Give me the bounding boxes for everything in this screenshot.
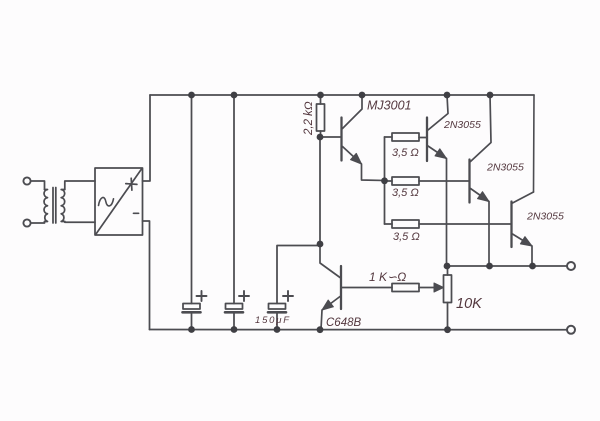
- svg-text:2,2 kΩ: 2,2 kΩ: [303, 101, 315, 136]
- node ground pot bottom: [444, 326, 451, 333]
- capacitor C2 top wire: [233, 95, 235, 304]
- node output rail Q3 emitter: [529, 263, 536, 270]
- svg-text:2N3055: 2N3055: [526, 211, 564, 223]
- resistor R3 3.5ohm body: [392, 177, 419, 185]
- bridge rectifier minus mark: [134, 212, 139, 214]
- transformer T1 primary winding: [44, 190, 47, 222]
- wire R2 to Q1 base: [419, 137, 427, 139]
- capacitor C1 top plate: [183, 304, 200, 310]
- transistor Q1 2N3055 base bar: [426, 118, 428, 162]
- node C648B collector junction: [317, 241, 324, 248]
- svg-text:C648B: C648B: [326, 317, 361, 329]
- node top rail cap2: [231, 92, 238, 99]
- svg-text:150μF: 150μF: [255, 315, 291, 326]
- wire bridge + output to top rail: [143, 95, 151, 181]
- wire bridge - output to bottom rail: [143, 221, 150, 330]
- node ground Q4 emitter: [317, 326, 324, 333]
- svg-text:2N3055: 2N3055: [486, 162, 524, 174]
- potentiometer wiper arrow: [434, 283, 444, 292]
- node output rail Q2 emitter: [486, 263, 493, 270]
- transistor Q2 collector: [471, 95, 492, 162]
- transistor Q2 emitter: [471, 189, 490, 267]
- capacitor C2 plus sign: [239, 291, 249, 301]
- bridge rectifier sine mark: [99, 198, 114, 206]
- wire ladder to R2: [385, 136, 393, 138]
- transformer input terminal bottom: [23, 219, 30, 226]
- capacitor C1 bottom wire: [191, 314, 193, 330]
- svg-text:3,5 Ω: 3,5 Ω: [392, 187, 419, 199]
- capacitor C2 top plate: [226, 304, 243, 310]
- wire resistor ladder vertical: [384, 137, 386, 224]
- node top rail Q2 collector: [487, 92, 494, 99]
- wire ladder to R4: [385, 223, 393, 225]
- node R1 bottom / U1 base: [317, 134, 324, 141]
- svg-text:2N3055: 2N3055: [443, 119, 481, 131]
- transistor U1 MJ3001 base wire: [320, 136, 342, 138]
- transistor Q3 collector: [513, 192, 534, 203]
- capacitor C1 bottom plate: [183, 311, 201, 314]
- node output rail pot top: [444, 263, 451, 270]
- wire R1 to base node: [320, 131, 322, 137]
- capacitor C2 bottom wire: [233, 314, 235, 330]
- transistor Q4 C648B base bar: [340, 266, 342, 309]
- transistor Q3 2N3055 base bar: [510, 202, 512, 248]
- transistor Q2 2N3055 base bar: [468, 160, 470, 203]
- transistor U1 MJ3001 emitter arrow: [351, 153, 362, 164]
- transistor U1 MJ3001 base bar: [340, 118, 342, 161]
- resistor R2 3.5ohm body: [392, 133, 419, 141]
- wire secondary bottom to bridge: [65, 221, 95, 224]
- transistor U1 MJ3001 collector: [343, 95, 363, 129]
- output terminal bottom: [567, 326, 575, 334]
- bridge rectifier box: [95, 168, 143, 235]
- resistor R1 2.2k body: [317, 104, 325, 131]
- capacitor C3 bottom wire: [276, 314, 278, 330]
- capacitor C3 plus sign: [283, 291, 293, 301]
- node ground cap2: [231, 326, 238, 333]
- node top rail cap1: [188, 92, 195, 99]
- svg-text:3,5 Ω: 3,5 Ω: [392, 147, 419, 159]
- potentiometer R6 10K body: [444, 275, 452, 303]
- capacitor C3 150uF top wire: [277, 244, 320, 304]
- wire: [31, 222, 45, 224]
- capacitor C1 top wire: [191, 95, 193, 304]
- node U1 emitter / ladder: [381, 177, 388, 184]
- transformer T1 secondary winding: [61, 190, 65, 222]
- wire pot bottom to ground rail: [447, 303, 449, 330]
- svg-text:3,5 Ω: 3,5 Ω: [393, 231, 420, 243]
- bridge rectifier plus mark: [126, 178, 137, 190]
- capacitor C3 bottom plate: [268, 311, 286, 314]
- wire positive output rail: [447, 265, 568, 267]
- wire: [31, 181, 45, 190]
- transformer input terminal top: [23, 177, 30, 184]
- transistor Q4 emitter arrow: [322, 300, 333, 310]
- capacitor C3 top plate: [269, 304, 286, 310]
- transistor Q3 emitter arrow: [520, 237, 532, 246]
- transistor Q1 emitter: [428, 146, 447, 266]
- node ground cap3: [274, 326, 281, 333]
- wire R4 to Q3 base: [419, 223, 512, 225]
- svg-text:1 K∽Ω: 1 K∽Ω: [369, 270, 406, 284]
- node top rail U1 collector: [359, 92, 366, 99]
- resistor R4 3.5ohm body: [392, 220, 419, 228]
- transistor Q4 C648B collector: [320, 244, 340, 278]
- wire ladder to R3: [385, 180, 393, 182]
- transistor Q4 emitter: [321, 297, 340, 330]
- transistor Q2 emitter arrow: [478, 192, 490, 202]
- transistor Q4 base wire: [341, 287, 392, 289]
- svg-text:MJ3001: MJ3001: [367, 99, 411, 113]
- svg-text:10K: 10K: [456, 296, 483, 312]
- wire pot top to output rail: [447, 266, 449, 275]
- node top rail R1: [317, 92, 324, 99]
- wire bottom ground rail: [150, 329, 568, 331]
- wire secondary top to bridge: [65, 181, 95, 190]
- transistor U1 MJ3001 emitter: [343, 147, 385, 181]
- capacitor C2 bottom plate: [225, 311, 243, 314]
- resistor R5 1k body: [392, 284, 419, 292]
- wire top supply rail: [150, 94, 534, 96]
- transistor Q3 emitter: [513, 234, 533, 266]
- wire R3 to Q2 base: [419, 180, 470, 182]
- capacitor C1 plus sign: [197, 291, 207, 301]
- bridge rectifier diagonal: [96, 169, 142, 234]
- transistor Q1 collector: [428, 95, 448, 130]
- transistor Q1 emitter arrow: [435, 149, 447, 159]
- wire top rail right end down to Q3 collector: [533, 95, 536, 192]
- node ground cap1: [188, 326, 195, 333]
- output terminal top: [567, 262, 575, 270]
- transformer T1 core: [53, 188, 56, 224]
- wire base node down to C648B collector node: [319, 137, 321, 244]
- node top rail Q1 collector: [444, 92, 451, 99]
- wire rail to R1: [320, 95, 322, 104]
- wire R5 to pot arrow: [419, 287, 435, 289]
